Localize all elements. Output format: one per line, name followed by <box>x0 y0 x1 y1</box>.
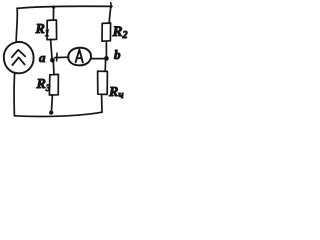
resistor R2 <box>102 23 111 41</box>
current source I1 circle <box>4 42 34 73</box>
resistor R1 <box>47 20 57 40</box>
wire source bottom to bottom-left corner <box>13 74 16 116</box>
wire bottom horizontal <box>14 112 102 116</box>
junction tick left of ammeter <box>56 53 58 61</box>
node a junction dot <box>50 58 55 63</box>
current source arrow chevron upper <box>12 50 25 57</box>
wire bottom-right vertical to R4 <box>101 95 103 113</box>
wire R1 bottom to node a <box>51 40 52 59</box>
wire top-right overshoot tick <box>110 3 113 8</box>
wire middle left (node a to ammeter) <box>55 56 69 58</box>
resistor R4 <box>98 71 108 94</box>
node b junction dot <box>104 56 109 61</box>
wire left vertical (top corner to source) <box>16 8 17 42</box>
wire node b down to R4 <box>104 60 106 72</box>
wire R2 bottom to node b <box>105 41 107 57</box>
wire R3 bottom to bottom wire <box>51 95 52 113</box>
svg-text:a: a <box>39 50 46 65</box>
wire R2 top vertical <box>109 7 111 24</box>
wire R1 top vertical <box>52 7 54 21</box>
wire top horizontal <box>17 6 112 8</box>
current source arrow chevron lower <box>12 57 24 65</box>
ammeter A1 ellipse <box>68 48 91 66</box>
ammeter letter A <box>76 50 83 63</box>
junction dot R3 bottom <box>49 111 53 115</box>
svg-text:R2: R2 <box>112 24 128 41</box>
svg-text:R3: R3 <box>36 77 51 93</box>
svg-text:b: b <box>114 47 121 62</box>
resistor R3 <box>49 74 58 95</box>
wire node a down to R3 <box>52 62 55 74</box>
junction blob at top wire <box>52 6 55 9</box>
svg-text:Rч: Rч <box>108 85 124 101</box>
wire middle right (ammeter to node b) <box>91 58 104 60</box>
